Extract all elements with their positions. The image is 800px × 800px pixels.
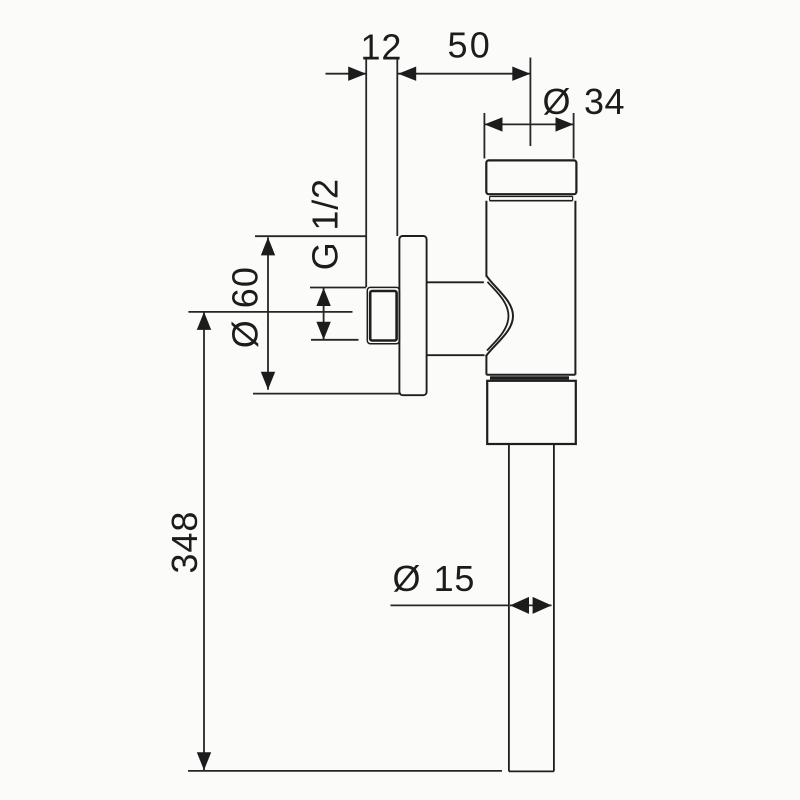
svg-text:Ø 60: Ø 60 xyxy=(225,266,266,348)
svg-text:Ø 34: Ø 34 xyxy=(543,81,626,122)
svg-text:Ø 15: Ø 15 xyxy=(393,558,476,599)
svg-text:50: 50 xyxy=(448,25,492,66)
svg-text:G 1/2: G 1/2 xyxy=(305,178,346,270)
svg-text:12: 12 xyxy=(361,27,403,68)
svg-text:348: 348 xyxy=(164,511,205,574)
